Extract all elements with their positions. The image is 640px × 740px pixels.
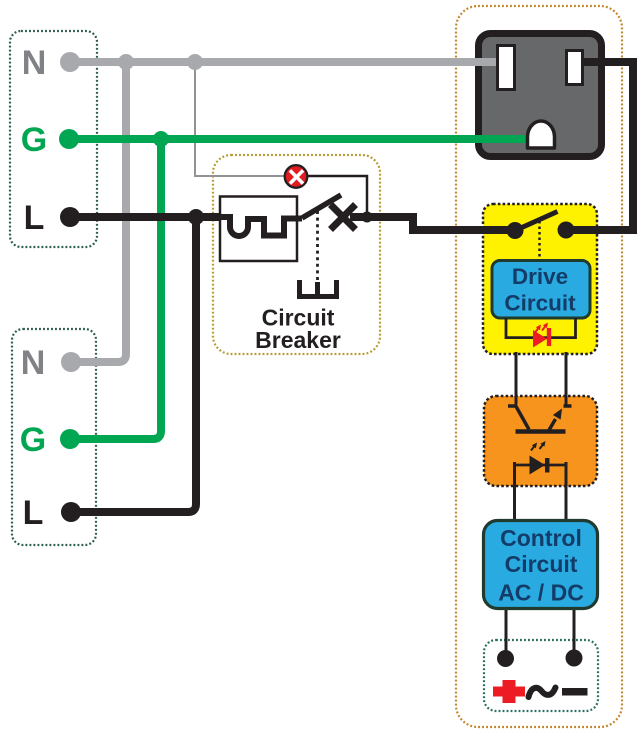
svg-text:Control: Control [500, 525, 582, 551]
svg-text:Drive: Drive [512, 264, 568, 289]
svg-text:G: G [21, 121, 47, 159]
svg-text:Circuit: Circuit [504, 291, 576, 316]
svg-text:Circuit: Circuit [505, 551, 578, 577]
svg-text:N: N [22, 44, 47, 82]
svg-text:N: N [21, 344, 46, 382]
svg-text:L: L [24, 199, 45, 237]
svg-text:G: G [20, 421, 46, 459]
svg-text:AC / DC: AC / DC [498, 580, 584, 606]
svg-text:L: L [23, 494, 44, 532]
svg-text:Breaker: Breaker [255, 327, 341, 353]
